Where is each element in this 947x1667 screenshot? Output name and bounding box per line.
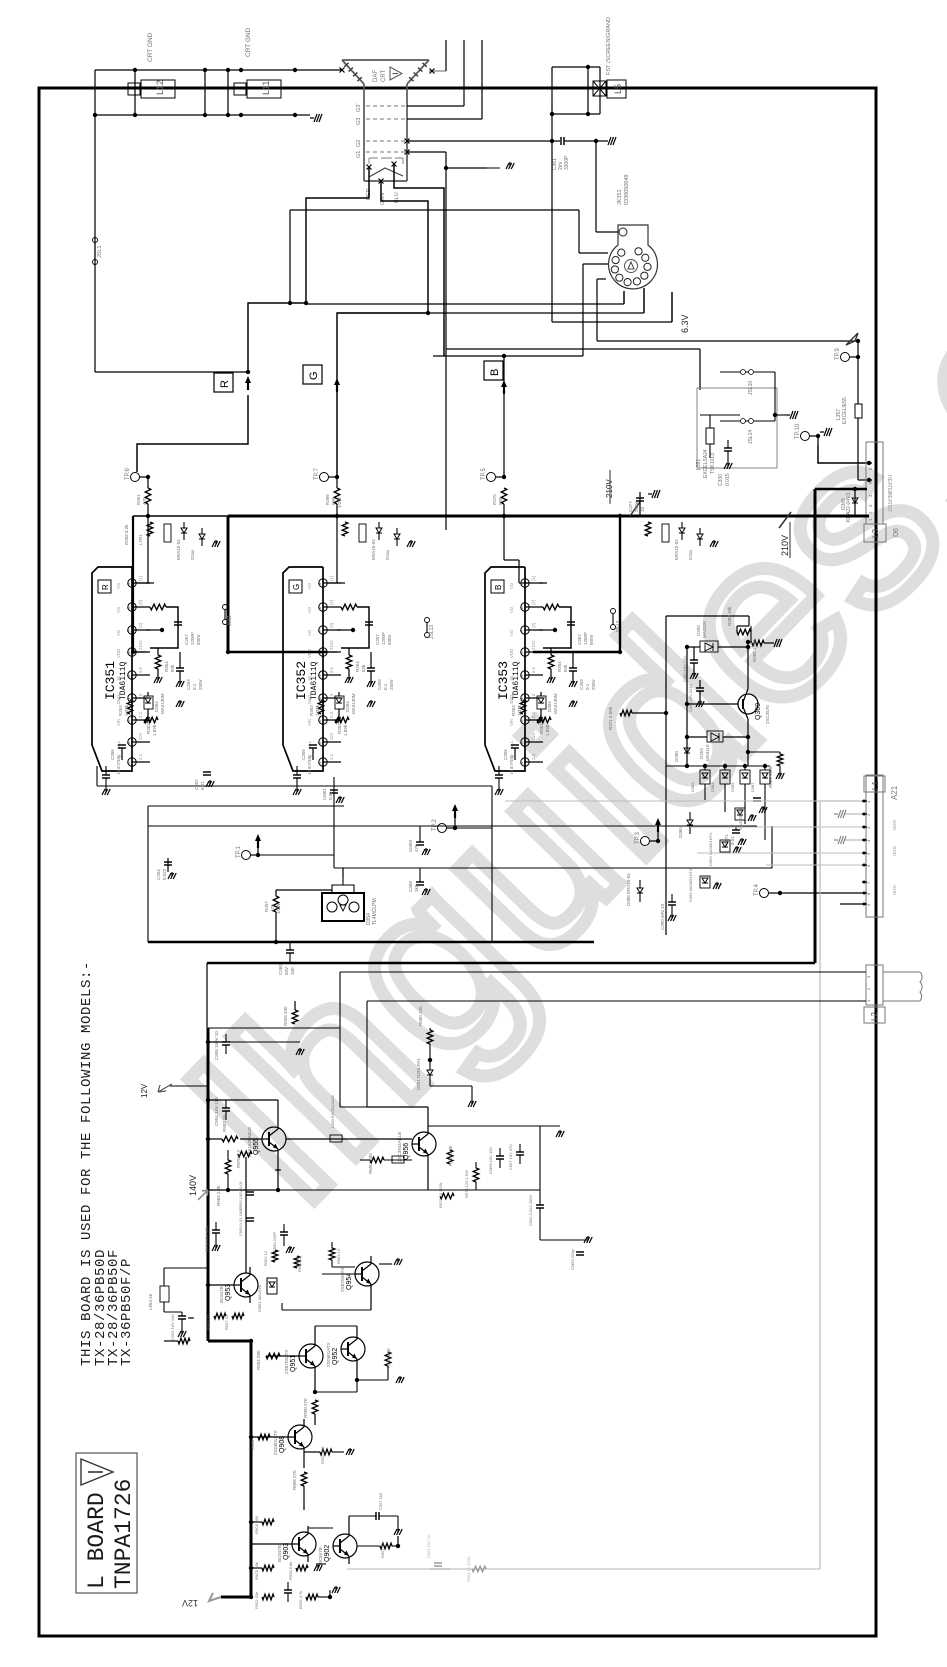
inductor bus row	[164, 524, 171, 542]
wire q369 left rail	[686, 647, 688, 766]
capacitor C354	[167, 858, 169, 872]
L BOARD TNPA1726 box	[76, 1453, 137, 1593]
svg-text:Q951: Q951	[290, 1355, 297, 1372]
svg-text:L11: L11	[261, 81, 271, 95]
ground bus row	[410, 540, 412, 544]
svg-text:D951 RZNLPA1: D951 RZNLPA1	[416, 1058, 421, 1090]
svg-text:Q954: Q954	[346, 1273, 353, 1290]
svg-text:R352: R352	[539, 723, 544, 734]
ground TP.10	[820, 431, 824, 433]
svg-text:EXCELIE55: EXCELIE55	[842, 397, 848, 424]
capacitor fb C357	[174, 621, 182, 623]
resistor R934	[296, 1565, 308, 1571]
wire gray vertical x820	[819, 801, 821, 1569]
svg-text:R369 160k: R369 160k	[768, 765, 773, 788]
svg-text:R952 560: R952 560	[320, 1446, 325, 1464]
wire y210 long	[290, 209, 579, 211]
capacitor C954	[222, 1107, 230, 1109]
svg-text:1.89k: 1.89k	[152, 724, 157, 736]
wire stub x135	[134, 70, 136, 115]
svg-text:TL4MCLPM: TL4MCLPM	[372, 898, 378, 925]
capacitor CM63	[576, 1251, 584, 1253]
connector L2 body	[866, 965, 883, 1005]
resistor R957b	[232, 1313, 244, 1319]
arrow G	[334, 378, 340, 385]
wire vdd pin	[228, 651, 337, 653]
label IC351 letter box	[98, 580, 111, 593]
svg-text:RM67 680: RM67 680	[368, 1153, 373, 1174]
transistor Q908	[288, 1425, 312, 1449]
svg-text:CRT GND: CRT GND	[147, 32, 154, 62]
wire gray pin1	[820, 800, 862, 802]
svg-text:R375: R375	[492, 494, 497, 505]
arrow 12V	[209, 1593, 221, 1601]
diode D364 clamp	[335, 696, 344, 709]
wire spark	[332, 885, 354, 893]
resistor R959	[292, 1010, 298, 1024]
svg-text:C359: C359	[186, 679, 191, 690]
connector P1 heater/210V body	[866, 442, 883, 524]
svg-text:CRT: CRT	[381, 69, 387, 82]
svg-text:R352: R352	[146, 723, 151, 734]
svg-text:2.4: 2.4	[138, 754, 143, 760]
bus 12V vertical x208	[207, 1028, 210, 1341]
svg-text:C356: C356	[503, 749, 508, 760]
capacitor C360	[286, 949, 294, 951]
connector L1 pins and wires	[862, 800, 867, 802]
svg-text:2SD601ATX: 2SD601ATX	[273, 1430, 278, 1455]
resistor R956	[385, 1352, 391, 1366]
capacitor C356 out	[511, 744, 519, 746]
svg-text:R935 4.7k: R935 4.7k	[298, 1591, 303, 1609]
wire gray bottom	[347, 1568, 820, 1570]
wire G2 right	[405, 139, 410, 144]
wire emitter right	[748, 751, 780, 753]
resistor R369	[777, 754, 783, 766]
svg-text:VO: VO	[307, 582, 312, 589]
svg-text:TX-36PB50F/P: TX-36PB50F/P	[119, 1258, 135, 1366]
svg-text:0.5: 0.5	[329, 667, 334, 673]
svg-text:VLL: VLL	[307, 740, 312, 748]
svg-text:R964 2.2k: R964 2.2k	[216, 1185, 221, 1206]
svg-text:R371 5.65k: R371 5.65k	[608, 706, 613, 730]
transistor Q956	[412, 1132, 436, 1156]
wire cathode R right	[306, 303, 624, 305]
wire r963	[331, 1242, 333, 1248]
wire d354 wiring	[276, 889, 332, 891]
electron gun bracket	[369, 158, 403, 164]
svg-text:210V: 210V	[780, 535, 790, 556]
jumper JSL13	[425, 618, 430, 623]
diode bus row 1	[679, 528, 685, 533]
diode D365	[854, 489, 856, 516]
wire q955 base	[240, 1138, 262, 1140]
wire GRN video	[337, 181, 428, 476]
svg-text:2SC3944AKLB: 2SC3944AKLB	[397, 1132, 402, 1162]
svg-text:D387: D387	[750, 782, 755, 792]
svg-text:L7R1: L7R1	[138, 534, 143, 545]
svg-text:VO: VO	[509, 582, 514, 589]
funnel lead left x	[340, 68, 345, 73]
svg-text:R351: R351	[136, 494, 141, 505]
svg-text:C967 16V 470: C967 16V 470	[508, 1144, 513, 1170]
wire q951 emitter	[314, 1374, 316, 1392]
diode D360	[687, 820, 693, 825]
resistor R353 in	[520, 700, 526, 714]
svg-text:1K: 1K	[307, 676, 312, 681]
bus 210V stub left	[133, 515, 228, 517]
svg-text:Q903: Q903	[283, 1543, 290, 1560]
wire FST loop bottom	[552, 113, 600, 115]
svg-text:Q955: Q955	[253, 1138, 260, 1155]
svg-text:L3: L3	[871, 529, 880, 538]
svg-text:C359: C359	[579, 679, 584, 690]
wire rm67	[360, 1159, 370, 1161]
svg-text:C356: C356	[110, 749, 115, 760]
svg-text:L1: L1	[871, 781, 880, 790]
wire y972 long	[340, 971, 866, 973]
svg-text:18p: 18p	[116, 754, 121, 762]
warning triangle L BOARD	[81, 1459, 113, 1485]
wire vdd pin	[539, 651, 620, 653]
svg-text:GND: GND	[116, 695, 121, 704]
svg-text:D364: D364	[154, 701, 159, 712]
ground near funnel	[483, 167, 500, 169]
svg-text:R956 560: R956 560	[386, 1348, 391, 1368]
svg-text:(1): (1)	[138, 575, 143, 581]
resistor R357	[273, 896, 279, 912]
svg-text:D382: D382	[690, 782, 695, 792]
wire x492 drop	[491, 786, 493, 942]
CRT socket JK351 body	[609, 225, 658, 289]
svg-text:VDD: VDD	[307, 649, 312, 658]
resistor R375 560	[501, 488, 507, 504]
svg-text:L2: L2	[870, 1012, 879, 1021]
wire y1190	[208, 1189, 540, 1191]
svg-text:R352: R352	[337, 723, 342, 734]
funnel lead right	[429, 70, 446, 72]
wire 6.3V	[597, 340, 858, 342]
svg-text:JSL10: JSL10	[748, 381, 754, 395]
resistor R901 gray	[472, 1566, 486, 1572]
svg-text:D364: D364	[345, 701, 350, 712]
wire c962	[539, 1218, 541, 1240]
svg-text:82k: 82k	[563, 664, 568, 672]
diode D951	[427, 1070, 433, 1075]
bus 40PV vertical	[814, 489, 817, 963]
svg-text:0339050049: 0339050049	[624, 174, 630, 205]
svg-text:R901 1k 1/2W: R901 1k 1/2W	[466, 1556, 471, 1582]
svg-text:82k: 82k	[361, 664, 366, 672]
svg-text:TNPA1726: TNPA1726	[111, 1479, 137, 1589]
op-amp IC352 body	[283, 567, 323, 771]
wire d350 row	[687, 646, 700, 648]
capacitor C974	[212, 1229, 220, 1231]
svg-text:12V: 12V	[182, 1598, 198, 1608]
arrow B	[501, 380, 507, 387]
funnel grid dashed G3	[366, 118, 407, 120]
resistor R371b	[620, 710, 632, 716]
svg-text:C330: C330	[718, 474, 724, 486]
svg-text:R907 51: R907 51	[380, 1542, 385, 1558]
connector L2 tab	[864, 1007, 885, 1023]
svg-text:(3): (3)	[138, 622, 143, 628]
svg-text:R: R	[219, 380, 231, 388]
bus GND y942	[148, 941, 594, 944]
svg-text:C901 25V 10: C901 25V 10	[426, 1534, 431, 1558]
capacitor C356 out	[309, 744, 317, 746]
svg-text:CM66 10V 100: CM66 10V 100	[488, 1147, 493, 1174]
diode D380	[684, 748, 690, 753]
wire x772 drop	[771, 826, 773, 868]
label IC353 letter box	[491, 580, 504, 593]
svg-text:JSL13: JSL13	[429, 625, 435, 639]
wire IC pin9 net	[337, 582, 345, 584]
svg-text:CM63 220p: CM63 220p	[570, 1249, 575, 1270]
svg-text:R972 10 1/2W: R972 10 1/2W	[438, 1182, 443, 1208]
svg-text:R353: R353	[309, 705, 314, 716]
connector L1 tab	[864, 776, 885, 792]
svg-text:12V: 12V	[329, 732, 334, 740]
transistor Q902	[333, 1534, 357, 1558]
wire FST inner	[587, 67, 589, 114]
svg-text:D369 MA3051HTX: D369 MA3051HTX	[688, 868, 693, 902]
svg-text:R354: R354	[557, 661, 562, 672]
svg-text:GND: GND	[892, 820, 897, 831]
wire tp2 link	[455, 827, 492, 829]
svg-text:GND: GND	[892, 885, 897, 896]
capacitor C955b	[178, 1315, 186, 1317]
svg-text:210V: 210V	[329, 640, 334, 650]
svg-text:D353: D353	[699, 748, 704, 759]
svg-text:1k8: 1k8	[414, 884, 419, 892]
svg-text:VO: VO	[116, 582, 121, 589]
svg-text:C955 16V 100: C955 16V 100	[170, 1314, 175, 1340]
watermark elhguides.c diagonal	[147, 240, 947, 1247]
arrow TP.3	[655, 818, 661, 825]
diode bus row 1	[181, 528, 187, 533]
svg-text:10.8: 10.8	[307, 766, 312, 775]
CRT socket top pin	[619, 228, 627, 236]
wire x446 ext	[445, 349, 447, 530]
svg-text:470: 470	[414, 844, 419, 852]
diode bus row 1	[376, 528, 382, 533]
wire y1042	[208, 1041, 300, 1043]
svg-text:0.01: 0.01	[730, 836, 735, 845]
svg-text:D388 ERA15-04: D388 ERA15-04	[626, 873, 631, 906]
svg-text:C352: C352	[194, 779, 199, 790]
wire B input to pin9	[503, 516, 505, 560]
resistor R952	[222, 1136, 238, 1142]
svg-text:VIN: VIN	[116, 719, 121, 726]
connector L3 box	[864, 524, 886, 542]
svg-text:1.89k: 1.89k	[545, 724, 550, 736]
inductor L12	[141, 80, 175, 98]
wire q955-q956 link	[286, 1138, 412, 1140]
IC352 pins	[319, 579, 327, 587]
svg-text:1.33k: 1.33k	[124, 704, 129, 716]
svg-text:ERA15-04: ERA15-04	[371, 539, 376, 560]
resistor R366 560	[334, 488, 340, 504]
svg-text:C371: C371	[724, 834, 729, 845]
resistor fb R355	[150, 604, 166, 610]
svg-text:100: 100	[290, 967, 295, 975]
wire 40PV	[815, 488, 867, 491]
junction dots top loop	[133, 68, 137, 72]
wire G1 right	[405, 150, 410, 155]
bus 210V horizontal	[228, 515, 869, 518]
inductor L953	[330, 1135, 342, 1142]
resistor bus row	[645, 522, 651, 536]
svg-text:R900 270: R900 270	[303, 1398, 308, 1418]
svg-text:R354: R354	[355, 661, 360, 672]
capacitor C907	[375, 1512, 377, 1520]
wire dmatrix left	[666, 765, 700, 767]
ground bus row	[713, 540, 715, 544]
svg-text:R385 160k: R385 160k	[752, 639, 757, 662]
testpoint TP.6	[131, 473, 140, 482]
transistor Q951	[299, 1344, 323, 1368]
svg-text:1K: 1K	[116, 676, 121, 681]
funnel grid dashed G3'	[366, 105, 407, 107]
IC353 pins	[521, 579, 529, 587]
svg-text:D3xx: D3xx	[385, 549, 390, 560]
wire y349 G1	[446, 348, 700, 350]
inductor bus row	[359, 524, 366, 542]
svg-text:2.3: 2.3	[138, 712, 143, 718]
svg-text:GND: GND	[509, 695, 514, 704]
wire q953 base net	[208, 1284, 234, 1286]
resistor R354	[346, 655, 352, 669]
CRT funnel DAF CRT	[342, 59, 429, 61]
svg-text:R970 2.7: R970 2.7	[236, 1149, 241, 1168]
svg-text:D364: D364	[547, 701, 552, 712]
svg-text:1200P: 1200P	[190, 632, 195, 645]
svg-text:G3’: G3’	[356, 103, 362, 112]
testpoint TP.10	[801, 432, 810, 441]
resistor R965	[275, 1169, 281, 1171]
svg-text:250V: 250V	[591, 679, 596, 690]
svg-text:2.3: 2.3	[531, 712, 536, 718]
svg-text:250V: 250V	[389, 679, 394, 690]
resistor fb R355	[341, 604, 357, 610]
svg-text:JSL14: JSL14	[748, 430, 754, 444]
capacitor C901 gray	[434, 1562, 442, 1564]
node B boxed label	[484, 361, 503, 380]
svg-text:C382 16V 220: C382 16V 220	[682, 656, 687, 682]
wire stub x228	[227, 70, 229, 115]
resistor bus row	[342, 522, 348, 536]
svg-text:R954 580: R954 580	[256, 1350, 261, 1370]
wire dmatrix bottoms	[704, 784, 706, 800]
wire l954	[163, 1282, 165, 1286]
svg-text:R962 12: R962 12	[263, 1250, 268, 1266]
bus feed IC353 vertical	[619, 516, 621, 652]
svg-text:HEATER: HEATER	[886, 492, 892, 512]
svg-text:210V: 210V	[531, 640, 536, 650]
svg-text:1/2W: 1/2W	[337, 497, 342, 508]
wire pin6 stub	[539, 629, 555, 631]
ground pin2	[845, 813, 862, 815]
svg-text:470: 470	[270, 904, 275, 912]
svg-text:C357: C357	[184, 634, 189, 645]
wire IC feedback loop	[341, 607, 369, 648]
svg-text:TP.7: TP.7	[314, 467, 320, 480]
diode D364 clamp	[144, 696, 153, 709]
resistor R906	[301, 1472, 307, 1486]
arrow 6.3V	[846, 333, 858, 345]
svg-text:1.89k: 1.89k	[343, 724, 348, 736]
svg-text:BC847B: BC847B	[318, 1547, 323, 1564]
svg-text:G3: G3	[356, 118, 362, 125]
svg-text:R906 270: R906 270	[292, 1470, 297, 1490]
svg-text:0.5: 0.5	[138, 667, 143, 673]
inductor L11	[247, 80, 281, 98]
arrow 12V upper	[158, 1084, 172, 1092]
svg-text:D385: D385	[730, 782, 735, 792]
resistor R354	[548, 655, 554, 669]
wire socket pin10 feed	[583, 263, 608, 265]
arrow 140V	[198, 1190, 208, 1200]
jumper JSL1	[93, 238, 98, 243]
wire IC pin stubs	[525, 582, 543, 584]
svg-text:250V: 250V	[634, 501, 639, 512]
wire IC pin stubs	[323, 582, 341, 584]
svg-text:C359: C359	[377, 679, 382, 690]
diode DM61 boxed	[267, 1278, 277, 1294]
resistor R966	[447, 1150, 453, 1164]
wire q956 emitter	[427, 1162, 429, 1190]
wire RED video	[248, 167, 369, 372]
capacitor decouple C359	[569, 667, 577, 669]
diode cluster D369	[700, 876, 710, 888]
wire pin7 tp4	[780, 892, 862, 894]
wire y1107	[340, 1106, 367, 1108]
capacitor C958	[222, 1041, 230, 1043]
capacitor fb C357	[567, 621, 575, 623]
wire gray pin6	[766, 864, 862, 866]
svg-text:VO: VO	[509, 629, 514, 636]
wire stub x205	[204, 70, 206, 115]
bus feed IC352	[227, 647, 230, 652]
resistor R353 in	[127, 700, 133, 714]
wire IC pin9 net	[146, 582, 154, 584]
inductor L11 core	[234, 83, 246, 95]
bus 12V vertical x251	[250, 1341, 253, 1597]
resistor R951	[178, 1338, 190, 1344]
wire right net	[428, 1125, 540, 1127]
wire q903 base	[251, 1543, 292, 1545]
wire vdd pin	[133, 651, 146, 653]
svg-text:560: 560	[498, 497, 503, 505]
svg-text:D350: D350	[696, 625, 701, 636]
diode bus row 2	[199, 534, 205, 539]
resistor R954	[266, 1353, 280, 1359]
svg-text:MA3130M: MA3130M	[160, 693, 165, 714]
svg-text:L351: L351	[696, 459, 702, 470]
bus 12V jog	[208, 1340, 251, 1343]
svg-text:(3): (3)	[531, 622, 536, 628]
wire FST loop top	[552, 66, 600, 68]
jumper JSL14	[741, 419, 746, 424]
svg-text:R353: R353	[118, 705, 123, 716]
svg-text:VO: VO	[116, 606, 121, 613]
arrow TP.1	[255, 834, 261, 841]
resistor R352 gnd pin	[144, 719, 146, 721]
wire q951 base	[266, 1355, 299, 1357]
svg-text:6.3V: 6.3V	[680, 314, 690, 333]
svg-text:2.4: 2.4	[329, 754, 334, 760]
